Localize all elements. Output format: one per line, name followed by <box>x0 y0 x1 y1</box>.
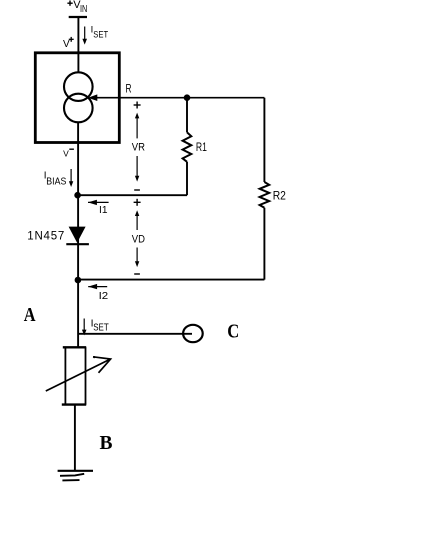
power rail +VIN <box>67 0 87 17</box>
arrow I2 <box>88 284 107 289</box>
node N2 (IBIAS node, I1 rail junction) <box>74 192 81 199</box>
current source U1 box <box>35 53 119 143</box>
svg-text:B: B <box>100 432 113 454</box>
svg-text:R: R <box>126 84 132 96</box>
label IBIAS <box>44 171 67 188</box>
arrow ISET (top) <box>82 27 87 45</box>
label node B <box>100 432 113 454</box>
svg-text:VR: VR <box>132 141 145 153</box>
label VD <box>132 233 145 245</box>
wire to terminal C <box>78 333 192 335</box>
svg-text:A: A <box>24 304 36 326</box>
svg-text:I1: I1 <box>99 204 108 216</box>
svg-text:BIAS: BIAS <box>46 175 66 187</box>
label VR minus <box>134 189 140 191</box>
wire from +VIN rail into current-source box <box>77 17 79 73</box>
label ISET (lower) <box>91 318 109 334</box>
resistor R2 <box>260 182 270 208</box>
terminal C circle <box>183 325 203 342</box>
svg-text:C: C <box>227 321 239 343</box>
label V+ <box>63 37 74 50</box>
ground <box>58 471 93 481</box>
label 1N457 <box>27 230 64 242</box>
svg-text:I2: I2 <box>99 290 109 302</box>
svg-text:R2: R2 <box>273 190 286 202</box>
wire rheostat to ground <box>74 405 76 471</box>
label VR plus <box>134 102 141 109</box>
label ISET (top) <box>91 25 109 41</box>
pin R arrow into current source <box>88 94 264 101</box>
arrow I1 <box>88 200 109 205</box>
wire I2 horizontal rail <box>78 279 265 281</box>
label I1 <box>99 204 108 216</box>
label VD plus <box>134 199 141 206</box>
wire I1 horizontal rail <box>78 194 187 196</box>
current source circles <box>64 72 93 122</box>
svg-text:SET: SET <box>93 29 108 40</box>
svg-text:R1: R1 <box>196 142 207 154</box>
node N1 (junction of R wire and R1) <box>184 94 191 101</box>
arrow VR down <box>135 156 139 182</box>
svg-text:VD: VD <box>132 233 145 245</box>
diode D1 <box>66 227 89 245</box>
label R <box>126 84 132 96</box>
arrow VR up <box>135 113 139 139</box>
svg-text:SET: SET <box>93 323 109 334</box>
arrow VD up <box>135 210 139 230</box>
svg-text:1N457: 1N457 <box>27 230 64 242</box>
rheostat body <box>62 347 86 405</box>
arrow IBIAS <box>69 169 73 187</box>
label R1 <box>196 142 207 154</box>
main vertical wire (box bottom through diode to rheostat) <box>77 122 79 347</box>
wire R1 bottom to I1 rail <box>186 162 188 195</box>
arrow ISET (lower) <box>82 319 87 336</box>
label node C <box>227 321 239 343</box>
label I2 <box>99 290 109 302</box>
node N3 (I2 rail junction) <box>75 277 82 284</box>
svg-text:IN: IN <box>80 4 87 15</box>
label R2 <box>273 190 286 202</box>
resistor R1 <box>183 132 192 162</box>
svg-text:V: V <box>63 148 69 158</box>
svg-text:V: V <box>63 39 70 50</box>
rheostat arrow <box>46 356 111 391</box>
label V- <box>63 148 74 158</box>
label node A <box>24 304 36 326</box>
wire R2 bottom to I2 rail <box>263 208 265 280</box>
label VD minus <box>134 273 140 275</box>
arrow VD down <box>135 248 139 268</box>
label VR <box>132 141 145 153</box>
wire node N1 down to R1 <box>186 98 188 133</box>
wire R2 branch vertical <box>263 98 265 182</box>
